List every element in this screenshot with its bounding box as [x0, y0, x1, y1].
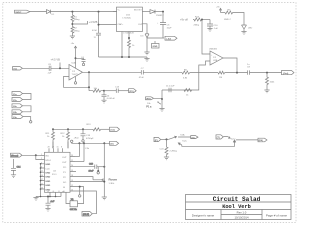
svg-text:(-9v): (-9v)	[167, 39, 172, 41]
wiper branch from P2 pin	[75, 177, 93, 180]
svg-text:.1uF: .1uF	[214, 28, 219, 30]
svg-text:Page # of name: Page # of name	[266, 213, 288, 217]
wire C9 to OUT	[250, 72, 282, 74]
svg-text:2Meg: 2Meg	[194, 25, 200, 27]
svg-text:9VDC: 9VDC	[16, 12, 22, 14]
svg-text:18: 18	[71, 175, 73, 177]
label Room	[109, 177, 118, 185]
wire U2A out	[83, 71, 142, 73]
capacitor C13	[115, 86, 120, 93]
svg-text:+Ron: +Ron	[74, 138, 80, 140]
resistor R7 1M	[218, 71, 225, 79]
wire In to C8	[22, 67, 49, 69]
wire C8 to op-amp	[51, 67, 69, 69]
wire pin PO to cap	[75, 166, 95, 168]
net box under -9v row	[152, 41, 160, 48]
U4 left pin numbers	[41, 154, 43, 190]
wire kill	[236, 139, 258, 141]
svg-text:GND: GND	[45, 173, 50, 175]
capacitor C1 47uF	[92, 12, 101, 57]
port OUT	[282, 71, 295, 76]
svg-text:OUT: OUT	[62, 162, 67, 164]
capacitor C8 .1uF	[47, 64, 52, 74]
node C15	[47, 196, 49, 198]
svg-text:1k 1.0uF: 1k 1.0uF	[166, 86, 175, 88]
node R11	[52, 128, 54, 130]
port FX send	[129, 89, 137, 93]
capacitor C9	[247, 64, 251, 75]
svg-text:47uF: 47uF	[92, 30, 98, 32]
svg-text:1.3Kh: 1.3Kh	[109, 183, 115, 185]
svg-text:(T): (T)	[217, 137, 220, 139]
wire -9v row	[147, 37, 164, 39]
svg-text:15: 15	[57, 147, 59, 149]
capacitor C12 1.0uF	[166, 86, 175, 93]
ground pulldown	[164, 157, 169, 160]
node SI	[79, 186, 81, 188]
svg-text:0.001uF: 0.001uF	[107, 98, 116, 100]
wire U5 out to D2	[142, 11, 150, 13]
svg-text:10uF: 10uF	[167, 28, 173, 30]
wire to C13	[104, 90, 116, 92]
wire R13 to port	[101, 128, 110, 130]
svg-text:.1uF: .1uF	[50, 201, 55, 203]
svg-text:1M: 1M	[219, 77, 222, 79]
svg-text:10uF: 10uF	[89, 171, 95, 173]
open terminal crystal row	[79, 195, 81, 197]
svg-text:17: 17	[41, 179, 43, 181]
wire R14 to node	[203, 19, 210, 21]
svg-text:2Meg: 2Meg	[74, 30, 80, 32]
capacitor .001uF to gnd	[102, 91, 116, 101]
svg-text:GND: GND	[45, 164, 50, 166]
open terminal bottom	[74, 82, 76, 84]
svg-text:Designer's name: Designer's name	[192, 213, 215, 217]
svg-text:GND: GND	[45, 181, 50, 183]
svg-text:21: 21	[41, 183, 43, 185]
wire C1 to CAP+ pin	[99, 24, 117, 26]
ground C10	[207, 29, 212, 32]
U4 top pin labels	[48, 147, 63, 149]
+9v supply arrow LED	[216, 7, 222, 13]
ground C15	[45, 208, 50, 211]
node DACR	[103, 142, 105, 144]
capacitor C17	[89, 164, 97, 173]
wire pot row	[161, 138, 169, 140]
rail dots	[40, 196, 57, 198]
port FX return	[146, 97, 154, 101]
node out	[266, 72, 268, 74]
ground R10	[264, 90, 269, 93]
node feedback	[88, 86, 90, 88]
resistor 1k under U5	[128, 40, 136, 57]
wire DACR down to pin2	[83, 143, 85, 161]
U4 left pin names	[45, 156, 51, 192]
svg-text:CLD: CLD	[45, 168, 50, 170]
open terminal DACR	[71, 140, 73, 142]
U4 top pin stubs	[49, 148, 63, 152]
svg-text:.1uF: .1uF	[47, 73, 52, 75]
U4 right pin stubs	[70, 157, 76, 191]
svg-text:OUT: OUT	[62, 157, 67, 159]
svg-text:Tail #: Tail #	[230, 139, 236, 141]
bias stub +4.5VB	[51, 57, 61, 68]
node From	[35, 154, 37, 156]
U5 bottom pin wire to rail	[121, 32, 123, 58]
wire node down to U3	[202, 20, 210, 55]
wire arrow to R5	[221, 12, 226, 14]
svg-text:(Ck): (Ck)	[111, 130, 116, 132]
IC U4 FV-1	[45, 152, 71, 192]
node pot row	[166, 138, 168, 140]
svg-text:O: O	[58, 191, 60, 193]
svg-text:U2A: U2A	[72, 62, 77, 65]
title block	[186, 195, 292, 220]
switch lever 2	[178, 143, 182, 145]
svg-text:U2B: U2B	[213, 60, 218, 62]
node DACR b	[78, 142, 80, 144]
switch S1 lever	[168, 134, 190, 143]
ground P1	[159, 109, 164, 112]
wire pin OUT row1	[75, 156, 79, 158]
wire DACR down to pin1	[78, 143, 80, 156]
node circle stub	[97, 167, 99, 171]
rail junction 1	[121, 56, 123, 58]
svg-text:SO: SO	[63, 182, 66, 184]
bottom pin jog to X1	[66, 197, 70, 204]
crystal X1	[70, 199, 78, 211]
node bias	[59, 67, 61, 69]
wire R6 to R7	[190, 72, 218, 74]
svg-text:8: 8	[61, 147, 62, 149]
node DACR c	[83, 142, 85, 144]
node power pin	[75, 57, 77, 59]
svg-text:LED: LED	[248, 28, 253, 30]
svg-text:14: 14	[41, 175, 43, 177]
svg-text:Rev 1.0: Rev 1.0	[237, 210, 247, 214]
svg-text:47uF: 47uF	[139, 77, 145, 79]
ground D3	[144, 52, 149, 55]
svg-text:+4.5 VB: +4.5 VB	[51, 57, 61, 61]
svg-text:+9v off: +9v off	[180, 17, 188, 21]
bus junction dots	[40, 163, 42, 190]
svg-text:P1 a: P1 a	[146, 106, 152, 109]
svg-text:19: 19	[71, 170, 73, 172]
open terminal x98	[97, 172, 99, 174]
node R12	[67, 128, 69, 130]
svg-text:OUT: OUT	[138, 24, 143, 26]
svg-text:(In): (In)	[14, 69, 18, 71]
LED D5	[242, 25, 253, 32]
resistor R10 100k	[266, 73, 276, 90]
U2A power pin	[75, 46, 77, 68]
svg-text:(D): (D)	[110, 144, 113, 146]
pin stub U5 left pin 8	[113, 11, 117, 13]
svg-text:13: 13	[71, 180, 73, 182]
capacitor C7 on main line	[139, 68, 145, 79]
jumper wire J2	[23, 106, 32, 112]
wire pin SK to port	[75, 191, 96, 214]
svg-text:S1A: S1A	[180, 134, 185, 137]
svg-text:23: 23	[71, 155, 73, 157]
node U3 out	[236, 72, 238, 74]
svg-text:2: 2	[41, 158, 42, 160]
stub to terminal	[79, 187, 81, 195]
node at divider	[71, 11, 73, 13]
svg-text:4700pF: 4700pF	[86, 138, 94, 140]
U4 bottom pin names	[47, 191, 65, 193]
svg-text:(FX): (FX)	[129, 91, 134, 93]
port clk out	[82, 212, 92, 217]
resistor R6 6.8k	[182, 69, 190, 79]
svg-text:32K Hz: 32K Hz	[70, 209, 77, 211]
bottom ground rail	[36, 196, 61, 198]
port J2b	[12, 110, 23, 114]
pot P1 10k	[146, 99, 162, 109]
svg-text:FV-1: FV-1	[52, 174, 57, 176]
port J1b	[12, 98, 23, 102]
svg-text:(FX): (FX)	[146, 99, 151, 101]
svg-text:11: 11	[41, 171, 43, 173]
ground C14	[11, 175, 16, 178]
node under U5	[128, 37, 130, 39]
wire FX return to node	[154, 97, 163, 100]
U4 right pin names	[62, 157, 67, 193]
pullup rail FV-1	[53, 128, 93, 130]
feedback wire U2A	[64, 72, 90, 90]
diode D3	[141, 30, 150, 52]
svg-text:J2b: J2b	[13, 112, 17, 114]
wire R11 to pin	[52, 142, 54, 149]
wire node up to mix line	[161, 90, 163, 99]
svg-text:Room: Room	[109, 177, 118, 181]
svg-text:28: 28	[48, 147, 50, 149]
port DACR	[110, 141, 119, 145]
wire From to pin1	[22, 154, 45, 156]
resistor R11	[46, 129, 55, 148]
svg-text:G: G	[53, 191, 55, 193]
wire pin OUT row2	[75, 161, 84, 163]
capacitor C6 10uF	[157, 12, 172, 38]
svg-text:24: 24	[41, 188, 43, 190]
ground rail under U5	[99, 56, 148, 58]
svg-text:2Meg: 2Meg	[74, 19, 80, 21]
wire D1 to U5	[51, 11, 118, 13]
svg-text:(P): (P)	[155, 140, 158, 142]
capacitor C15	[46, 197, 56, 209]
op-amp U3	[210, 51, 223, 65]
wire pin SI to crystal	[75, 187, 84, 204]
ground bus left of U4	[40, 164, 42, 197]
U4 left pin stubs	[41, 155, 45, 189]
U4 bottom pin stubs	[50, 192, 66, 196]
LED power indicator	[224, 10, 244, 26]
ground symbol rail left	[33, 197, 38, 201]
node C18	[82, 128, 84, 130]
U4 right pin numbers	[71, 155, 73, 191]
wire J3 to terminal	[23, 117, 31, 121]
svg-text:(S): (S)	[192, 137, 195, 139]
svg-text:22: 22	[71, 160, 73, 162]
wire cap to pot track	[97, 166, 105, 168]
svg-text:CAP+: CAP+	[118, 23, 124, 26]
port pot row	[154, 137, 161, 141]
ground C	[101, 100, 106, 103]
svg-text:(CLK): (CLK)	[83, 214, 89, 216]
wire R7 to C9	[225, 72, 248, 74]
node at C1	[98, 11, 100, 13]
svg-text:BOOST: BOOST	[134, 10, 142, 12]
svg-text:LM6482: LM6482	[209, 49, 218, 51]
op-amp U2A input stage	[69, 65, 83, 81]
port clk A	[110, 127, 120, 131]
wire 9VDC to D1	[30, 11, 47, 13]
svg-text:2.2Meg: 2.2Meg	[170, 151, 178, 153]
port kill	[258, 138, 267, 142]
ground Room pot	[102, 197, 107, 200]
svg-text:(Out): (Out)	[283, 72, 288, 75]
svg-text:(Kil): (Kil)	[259, 140, 264, 142]
node SO pot track	[103, 181, 105, 183]
diode D2 1N5817	[150, 10, 164, 17]
wire C7 to R6	[143, 71, 182, 73]
node FX return	[161, 98, 163, 100]
+9v arrow label	[71, 43, 77, 48]
wire C13 to FX port	[118, 90, 128, 92]
wire tails upper	[224, 137, 231, 139]
U5 bottom pin 2 wire	[128, 32, 130, 41]
node U2A out	[88, 71, 90, 73]
svg-text:SPLO: SPLO	[45, 160, 51, 162]
wire node to pin2	[36, 155, 41, 159]
svg-text:10/10/2014: 10/10/2014	[235, 215, 249, 219]
resistor R9 10k	[89, 88, 104, 92]
port mid right	[216, 135, 223, 139]
svg-text:GND: GND	[153, 46, 158, 48]
resistor R1 2Meg	[71, 12, 80, 24]
resistor 2.2Meg pulldown	[160, 139, 178, 157]
U2A bottom pin	[75, 77, 77, 82]
wire R12 to pin	[67, 142, 69, 149]
svg-text:GND: GND	[45, 185, 50, 187]
wire U3 inverting path	[162, 61, 210, 90]
svg-text:10: 10	[71, 190, 73, 192]
rail junction 2	[128, 56, 130, 58]
port pair J1	[12, 92, 23, 96]
port J3	[12, 115, 23, 119]
decoupling cap U2A	[76, 58, 86, 63]
node dot x98	[97, 170, 99, 172]
resistor R15 1k	[184, 89, 192, 97]
capacitor C18 4700pF	[81, 129, 95, 140]
svg-text:20: 20	[71, 165, 73, 167]
port J2a	[12, 104, 23, 108]
port In	[13, 67, 23, 71]
svg-text:PO: PO	[63, 167, 66, 169]
svg-text:G: G	[47, 191, 49, 193]
pot Room track	[103, 143, 105, 197]
svg-text:+4.5VB: +4.5VB	[89, 20, 98, 24]
wire D2 to node	[155, 11, 163, 13]
jumper wire J1	[23, 94, 32, 100]
port From	[11, 153, 23, 157]
ground divider	[70, 36, 75, 39]
svg-text:J1b: J1b	[13, 100, 17, 102]
node cap pot track	[103, 166, 105, 168]
port after S1	[191, 136, 198, 140]
svg-text:(From): (From)	[11, 156, 18, 158]
wire between divider resistors	[71, 24, 73, 27]
svg-text:Circuit Salad: Circuit Salad	[213, 196, 261, 203]
node -9v cap	[162, 11, 164, 13]
port -9v	[165, 36, 177, 40]
capacitor C14	[11, 159, 21, 175]
IC U5 LT1054	[117, 7, 144, 34]
port 9VDC	[15, 10, 31, 14]
open terminal C18	[82, 140, 84, 142]
wire U3 out	[223, 58, 237, 73]
svg-text:TL072: TL072	[72, 74, 79, 76]
svg-text:GND: GND	[45, 177, 50, 179]
svg-text:12: 12	[71, 185, 73, 187]
svg-text:Kool Verb: Kool Verb	[222, 204, 251, 210]
open terminal decoupling	[82, 63, 84, 65]
resistor R12	[61, 129, 70, 148]
node C1 CAP+	[98, 24, 100, 26]
node divider tap	[71, 23, 73, 25]
ground symbol rail	[144, 57, 149, 61]
wire tap to +4.5VB label	[72, 21, 87, 24]
wire tails long	[182, 140, 236, 146]
ground LED	[241, 32, 246, 35]
node FX send	[103, 90, 105, 92]
resistor R2 2Meg	[71, 27, 80, 37]
capacitor C10	[207, 20, 219, 31]
resistor R13	[87, 124, 101, 131]
open terminal J3	[30, 121, 32, 123]
node R14 C10	[201, 19, 203, 21]
wire pin SO to pot track	[75, 181, 104, 183]
svg-text:SMD C: SMD C	[224, 19, 231, 21]
wire OUT pin to -9v branch	[142, 24, 147, 30]
wire DACR row	[72, 142, 110, 145]
diode D1	[47, 10, 56, 16]
pot Room wiper	[93, 179, 103, 181]
svg-text:LT1054L: LT1054L	[123, 17, 132, 19]
resistor R14 2Meg	[193, 16, 203, 26]
